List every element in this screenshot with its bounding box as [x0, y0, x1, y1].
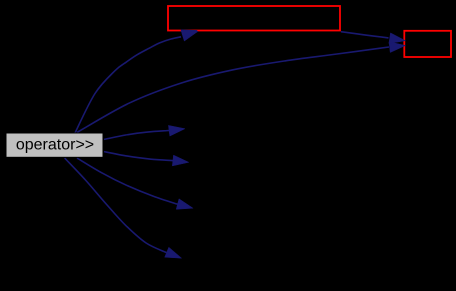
edge: operator>> -> hidden node 3 — [77, 158, 193, 209]
svg-text:operator>>: operator>> — [16, 137, 94, 154]
node: operator>> (root node, grey filled) — [6, 133, 103, 157]
edge: operator>> -> hidden node 2 — [104, 152, 189, 166]
right red node (truncated callee, small box) — [404, 31, 451, 57]
edge: top red node -> right red node — [341, 32, 406, 44]
edge: operator>> -> top red node — [75, 31, 198, 133]
top red node (truncated callee, wide box) — [168, 6, 340, 31]
edge: operator>> -> right red node — [77, 42, 406, 133]
edge: operator>> -> hidden node 4 — [65, 158, 182, 258]
edge: operator>> -> hidden node 1 — [104, 125, 185, 139]
